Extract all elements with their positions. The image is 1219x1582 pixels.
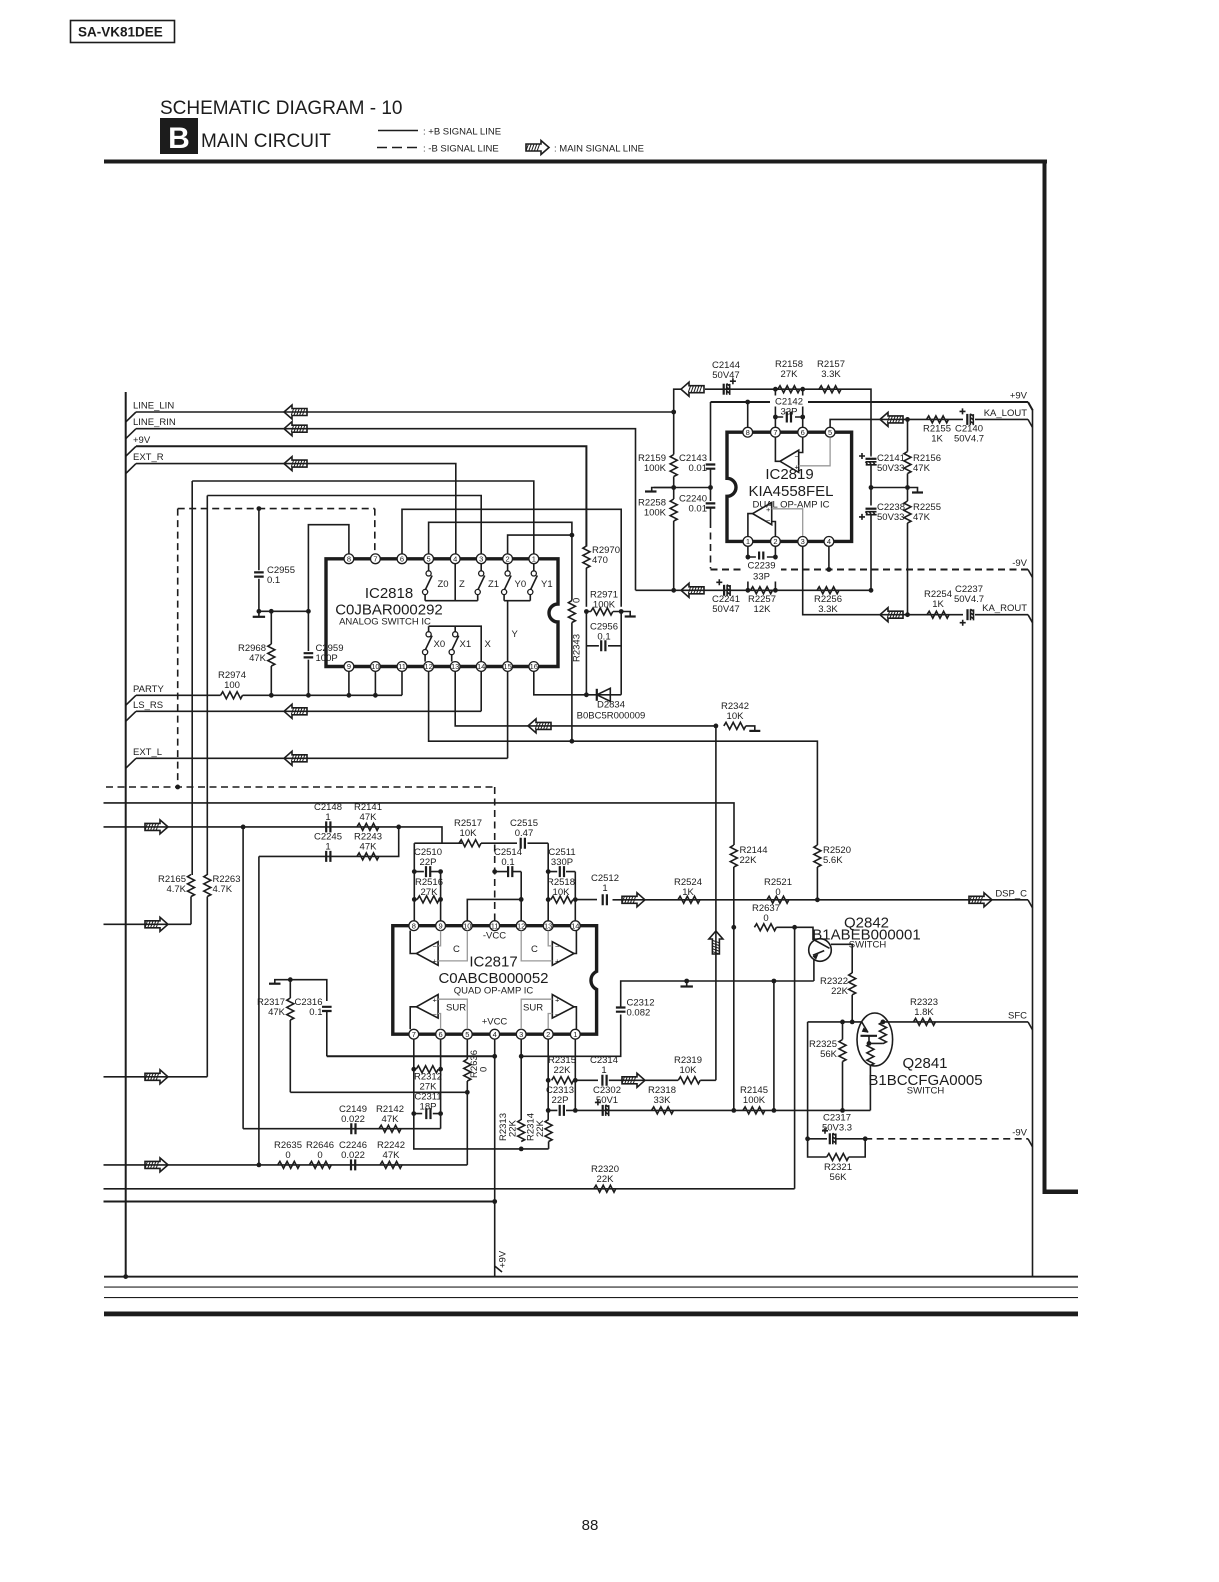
resistor R2243 xyxy=(354,832,382,860)
switch X0 (IC2818) xyxy=(423,626,446,661)
svg-text:47K: 47K xyxy=(913,512,931,523)
svg-text:2: 2 xyxy=(546,1030,550,1039)
svg-text:1: 1 xyxy=(573,1030,577,1039)
signal arrow on LS_RS xyxy=(284,704,307,718)
border right thick line xyxy=(1043,160,1047,1194)
node DSP_C flag xyxy=(995,888,1032,908)
svg-text:D2834: D2834 xyxy=(597,700,625,711)
svg-text:10K: 10K xyxy=(460,828,478,839)
svg-text:50V4.7: 50V4.7 xyxy=(954,594,984,605)
border bottom-right foot xyxy=(1043,1190,1079,1195)
resistor R2157 xyxy=(817,359,845,393)
wire R2970/C2956 branch xyxy=(586,612,621,695)
svg-text:100K: 100K xyxy=(593,600,616,611)
junction C2245 branch xyxy=(257,1163,262,1168)
wire IC2819 pin3 to KA_ROUT xyxy=(803,547,908,615)
wire C2143 to ground node xyxy=(710,469,712,501)
svg-text:22K: 22K xyxy=(740,855,758,866)
svg-text:9: 9 xyxy=(439,921,443,930)
resistor R2518 xyxy=(547,877,575,903)
svg-text:56K: 56K xyxy=(830,1172,848,1183)
wire KA_LOUT line xyxy=(908,418,964,420)
junction pin5/pin2/R2343 xyxy=(570,533,575,538)
svg-text:LS_RS: LS_RS xyxy=(133,700,163,711)
svg-text:100K: 100K xyxy=(743,1095,766,1106)
capacitor C2316 xyxy=(295,997,332,1056)
wire pin9 column xyxy=(440,872,442,921)
resistor R2256 xyxy=(814,587,842,615)
IC2817 pin 10 xyxy=(462,921,472,931)
svg-text:33K: 33K xyxy=(654,1095,672,1106)
signal arrow on LINE_LIN xyxy=(284,405,307,419)
wire R2637 to Q2842 base xyxy=(776,927,813,940)
node +9V rotated flag xyxy=(495,1250,509,1272)
svg-text:8: 8 xyxy=(347,554,351,563)
svg-text:22K: 22K xyxy=(831,986,849,997)
junction R2312 right xyxy=(438,1067,443,1072)
svg-text:1: 1 xyxy=(601,1065,606,1076)
svg-text:2: 2 xyxy=(773,537,777,546)
IC2819 pin 7 xyxy=(771,427,781,437)
capacitor C2511 xyxy=(548,847,575,877)
IC2817 pin 14 xyxy=(570,921,580,931)
wire C2245 line xyxy=(259,827,399,1165)
IC2817 pin 12 xyxy=(516,921,526,931)
junction R2141/R2243 xyxy=(396,825,401,830)
capacitor C2144 xyxy=(712,360,740,395)
junction C2239 right xyxy=(773,555,778,560)
svg-text:LINE_RIN: LINE_RIN xyxy=(133,417,176,428)
capacitor C2515 xyxy=(481,818,548,849)
resistor R2159 xyxy=(638,412,677,477)
svg-text:3: 3 xyxy=(801,537,805,546)
junction R2312 left xyxy=(411,1067,416,1072)
svg-text:4: 4 xyxy=(493,1030,497,1039)
svg-text:Y: Y xyxy=(512,629,519,640)
title MAIN CIRCUIT xyxy=(201,131,331,152)
wire base line to R2318 line xyxy=(807,1022,809,1139)
signal arrow on EXT_R xyxy=(284,457,307,471)
svg-text:SUR: SUR xyxy=(446,1003,466,1014)
svg-text:14: 14 xyxy=(571,921,579,930)
signal arrow on C2314 line xyxy=(622,1073,645,1087)
transistor Q2842 xyxy=(809,915,921,982)
resistor R2320 xyxy=(591,1164,619,1192)
junction KA_ROUT / R2255 xyxy=(905,612,910,617)
bottom bus line 1 xyxy=(104,1276,1078,1278)
junction R2516 left xyxy=(412,897,417,902)
svg-text:-9V: -9V xyxy=(1012,558,1027,569)
svg-text:IC2817: IC2817 xyxy=(469,954,517,971)
wire EXT_L line to pin15 xyxy=(136,672,508,759)
node -9V flag (bottom) xyxy=(1012,1127,1032,1147)
capacitor C2239 xyxy=(742,552,781,583)
capacitor C2143 xyxy=(679,453,715,474)
signal arrow on EXT_L xyxy=(284,751,307,765)
svg-text:33P: 33P xyxy=(753,572,770,583)
wire IC2818 pin13 to R2342 xyxy=(455,672,716,726)
svg-text:6: 6 xyxy=(439,1030,443,1039)
junction R2637 left xyxy=(731,925,736,930)
IC2817 quad op-amp body xyxy=(393,926,597,1034)
node SFC flag xyxy=(1008,1010,1033,1030)
op-amp U2817 C (top-left) xyxy=(410,931,467,966)
svg-text:IC2818: IC2818 xyxy=(365,585,413,602)
IC2817 pin 4 xyxy=(490,1029,500,1039)
signal arrow on LINE_RIN xyxy=(284,422,307,436)
svg-text:IC2819: IC2819 xyxy=(765,466,813,483)
signal arrow on 926 line xyxy=(145,917,168,931)
wire C2312 bottom segment xyxy=(521,1015,621,1057)
resistor R2145 xyxy=(740,1085,768,1114)
IC2818 pin 10 xyxy=(371,662,381,672)
capacitor C2956 xyxy=(586,622,621,652)
svg-text:-9V: -9V xyxy=(1012,1127,1027,1138)
wire IC2819 pin1,2 stubs to C2241 line xyxy=(748,547,776,591)
IC2818 pin 5 xyxy=(424,554,434,564)
junction C2514 right xyxy=(519,897,524,902)
svg-text:−: − xyxy=(433,942,438,951)
ground (C2955 node) xyxy=(258,611,260,617)
wire C2144 line (pin8 net) xyxy=(705,389,871,455)
wire branch to C2149 line xyxy=(242,827,244,1129)
resistor R2142 xyxy=(376,1104,404,1132)
resistor R2255 xyxy=(904,488,941,615)
junction C2511 left xyxy=(546,869,551,874)
svg-text:C: C xyxy=(453,944,460,955)
svg-text:SWITCH: SWITCH xyxy=(849,940,887,951)
IC2819 pin 5 xyxy=(825,427,835,437)
wire IC2819 pin8 stub xyxy=(747,402,749,427)
capacitor C2140 xyxy=(954,408,984,444)
resistor R2165 xyxy=(158,874,195,924)
svg-text:0: 0 xyxy=(285,1150,290,1161)
svg-text:LINE_LIN: LINE_LIN xyxy=(133,401,174,412)
node KA_LOUT flag xyxy=(984,408,1033,428)
junction PARTY/pin9 xyxy=(347,693,352,698)
junction R2518 left xyxy=(546,897,551,902)
junction KA_LOUT / R2156 xyxy=(905,417,910,422)
svg-text:Q2841: Q2841 xyxy=(902,1055,947,1072)
junction R2159/R2258 xyxy=(671,485,676,490)
node LINE_LIN flag xyxy=(126,401,175,423)
IC2818 analog switch IC body xyxy=(326,559,558,667)
svg-text:7: 7 xyxy=(773,428,777,437)
wire C2149/R2142 line xyxy=(243,1128,441,1130)
resistor R2315 xyxy=(548,1055,576,1084)
svg-text:1: 1 xyxy=(325,842,330,853)
junction R2637 right xyxy=(792,925,797,930)
svg-text:SCHEMATIC DIAGRAM - 10: SCHEMATIC DIAGRAM - 10 xyxy=(160,98,402,119)
wire LINE_RIN xyxy=(136,429,636,591)
svg-text:−: − xyxy=(555,942,560,951)
IC2819 pin 8 xyxy=(743,427,753,437)
op-amp U2817 C (top-right) xyxy=(521,931,576,966)
svg-text:27K: 27K xyxy=(421,887,439,898)
junction C2148 line branch xyxy=(241,825,246,830)
resistor R2257 xyxy=(748,587,776,615)
capacitor C2317 xyxy=(808,1113,866,1145)
IC2817 pin 9 xyxy=(436,921,446,931)
junction PARTY/pin10 xyxy=(373,693,378,698)
wire ground link R2159 R2258 xyxy=(654,487,711,489)
IC2818 pin 8 xyxy=(344,554,354,564)
signal arrow on C2144 line xyxy=(681,382,704,396)
wire R2635 line xyxy=(104,1164,468,1166)
resistor R2254 xyxy=(924,589,952,618)
svg-text:5: 5 xyxy=(427,554,431,563)
junction C2510 right xyxy=(438,869,443,874)
junction pin8 stub on +9V xyxy=(745,400,750,405)
resistor R2258 xyxy=(638,477,677,591)
switch Y1 (IC2818) xyxy=(528,564,553,601)
IC2818 pin 3 xyxy=(476,554,486,564)
svg-text:5.6K: 5.6K xyxy=(823,855,843,866)
svg-text:1K: 1K xyxy=(931,434,943,445)
wire IC2818 pin5/pin2 to R2343 xyxy=(429,522,572,554)
svg-text:0.1: 0.1 xyxy=(597,632,610,643)
svg-text:10: 10 xyxy=(463,921,471,930)
wire LS_RS line to pin14 xyxy=(136,672,481,712)
IC2819 pin 3 xyxy=(798,537,808,547)
node +9V flag (left) xyxy=(126,435,151,457)
junction C2143/C2240 midnode xyxy=(708,485,713,490)
wire SFC line xyxy=(883,1021,1028,1023)
junction PARTY/C2959 xyxy=(306,693,311,698)
wire R2320 line xyxy=(104,1188,795,1190)
svg-text:10K: 10K xyxy=(727,711,745,722)
resistor R2968 xyxy=(238,611,275,695)
signal arrow on KA_ROUT xyxy=(880,608,903,622)
svg-text:X1: X1 xyxy=(460,639,472,650)
wire +9V riser to bottom bus xyxy=(494,1202,496,1277)
svg-text:C0ABCB000052: C0ABCB000052 xyxy=(438,970,548,987)
junction R2315 left xyxy=(546,1078,551,1083)
svg-text:0.1: 0.1 xyxy=(501,857,514,868)
junction LINE_LIN / R2159 xyxy=(671,410,676,415)
model number box SA-VK81DEE xyxy=(71,21,175,43)
svg-text:47K: 47K xyxy=(382,1114,400,1125)
signal arrow on KA_LOUT xyxy=(880,412,903,426)
resistor R2971 xyxy=(586,590,621,616)
resistor R2521 xyxy=(764,877,792,903)
wire IC2819 pin5 to KA_LOUT node xyxy=(830,419,907,427)
svg-text:14: 14 xyxy=(477,662,485,671)
node -9V flag (right top) xyxy=(1012,558,1032,578)
svg-text:X0: X0 xyxy=(434,639,446,650)
signal arrow on DSP_C line xyxy=(622,893,645,907)
svg-text:100K: 100K xyxy=(644,463,667,474)
svg-text:0: 0 xyxy=(572,598,583,603)
svg-text:50V47: 50V47 xyxy=(712,370,739,381)
junction R2158 left xyxy=(773,387,778,392)
svg-text:0.1: 0.1 xyxy=(309,1007,322,1018)
junction pin12 line / R2343 xyxy=(570,739,575,744)
wire D2834 line xyxy=(534,672,621,695)
svg-text:50V33: 50V33 xyxy=(877,463,904,474)
svg-text:4.7K: 4.7K xyxy=(213,884,233,895)
IC2818 pin 6 xyxy=(397,554,407,564)
Q2841 labels xyxy=(868,1055,982,1097)
switch Z0 (IC2818) xyxy=(423,564,449,601)
svg-text:B: B xyxy=(168,122,190,155)
svg-text:56K: 56K xyxy=(820,1049,838,1060)
wire C2143 +9V drop xyxy=(710,402,712,461)
junction R2325 bottom xyxy=(840,1108,845,1113)
wire -9V dashed top xyxy=(711,569,1029,571)
wire X common xyxy=(429,626,482,661)
svg-text:5: 5 xyxy=(828,428,832,437)
wire EXT_R xyxy=(136,464,456,554)
svg-text:16: 16 xyxy=(530,662,538,671)
svg-text:4: 4 xyxy=(453,554,457,563)
junction IC2819 pin4 on -9V xyxy=(827,567,832,572)
ground (R2971 node) xyxy=(621,612,630,617)
svg-text:50V47: 50V47 xyxy=(712,604,739,615)
svg-text:50V3.3: 50V3.3 xyxy=(822,1123,852,1134)
wire left line 1077 (to R2263) xyxy=(104,1076,208,1078)
junction C2317 right xyxy=(863,1136,868,1141)
switch Z1 (IC2818) xyxy=(475,564,499,601)
junction R2257 left xyxy=(746,588,751,593)
resistor R2970 xyxy=(583,545,620,568)
svg-text:33P: 33P xyxy=(781,407,798,418)
capacitor C2149 xyxy=(339,1104,367,1134)
capacitor C2510 xyxy=(414,847,442,877)
capacitor C2245 xyxy=(314,832,342,862)
wire C2955 node xyxy=(259,610,309,612)
svg-text:0.1: 0.1 xyxy=(267,575,280,586)
svg-text:10K: 10K xyxy=(553,887,571,898)
IC2819 pin 2 xyxy=(771,537,781,547)
svg-text:47K: 47K xyxy=(360,842,378,853)
svg-text:13: 13 xyxy=(451,662,459,671)
wire R2517 line xyxy=(414,842,462,844)
svg-text:0.082: 0.082 xyxy=(627,1008,651,1019)
junction R2968 top xyxy=(269,609,274,614)
svg-text:C2239: C2239 xyxy=(748,561,776,572)
resistor R2263 xyxy=(204,874,241,1077)
capacitor C2302 xyxy=(593,1085,621,1116)
svg-text:47K: 47K xyxy=(383,1150,401,1161)
ground (C2141/R2156 node) xyxy=(908,488,918,493)
capacitor C2141 xyxy=(859,453,905,488)
svg-text:13: 13 xyxy=(544,921,552,930)
svg-text:15: 15 xyxy=(503,662,511,671)
switch X1 (IC2818) xyxy=(449,626,471,661)
wire IC2818 pin1 net (to left column) xyxy=(192,481,534,875)
wire R2342 column xyxy=(715,726,717,1080)
svg-text:3: 3 xyxy=(519,1030,523,1039)
signal arrow on C2148 line xyxy=(145,820,168,834)
svg-text:X: X xyxy=(485,639,492,650)
wire pin4 to +9V bus xyxy=(494,1039,496,1201)
capacitor C2512 xyxy=(591,873,619,905)
wire LINE_LIN riser to C2144 line xyxy=(674,389,681,412)
svg-text:-VCC: -VCC xyxy=(483,931,506,942)
resistor R2637 xyxy=(752,903,780,931)
svg-text:11: 11 xyxy=(398,662,406,671)
svg-text:1: 1 xyxy=(532,554,536,563)
signal arrow on 1077 line xyxy=(145,1070,168,1084)
resistor R2318 xyxy=(648,1085,676,1114)
junction C2959/pin8 xyxy=(306,609,311,614)
legend -B signal line xyxy=(377,144,499,155)
svg-text:+9V: +9V xyxy=(498,1250,509,1268)
capacitor C2312 xyxy=(616,981,814,1019)
svg-text:R2636: R2636 xyxy=(469,1050,480,1078)
wire left line 926 (to R2165) xyxy=(104,923,192,925)
svg-text:MAIN CIRCUIT: MAIN CIRCUIT xyxy=(201,131,331,152)
svg-text:: -B SIGNAL LINE: : -B SIGNAL LINE xyxy=(423,144,499,155)
IC2818 pin 11 xyxy=(397,662,407,672)
wire pin3 column xyxy=(520,1039,522,1120)
border top thick line xyxy=(104,160,1047,164)
junction +VCC/pin4 xyxy=(492,1054,497,1059)
junction R2313 bottom xyxy=(519,1147,524,1152)
wire pin6 column xyxy=(440,1039,442,1129)
capacitor C2241 xyxy=(712,579,740,615)
node EXT_L flag xyxy=(126,747,162,769)
svg-text:: MAIN SIGNAL LINE: : MAIN SIGNAL LINE xyxy=(554,144,644,155)
ground (C2312 line) xyxy=(684,979,689,984)
junction R2342 left xyxy=(714,724,719,729)
wire -9V dashed drop to IC2818 area xyxy=(710,521,712,569)
resistor R2636 (0 ohm, vertical) xyxy=(464,1039,490,1092)
wire Q2841 base line xyxy=(808,1021,862,1023)
IC2817 pin 3 xyxy=(516,1029,526,1039)
wire DSP_C line xyxy=(575,899,1028,901)
capacitor C2313 xyxy=(546,1085,575,1116)
op-amp U2819A (top) xyxy=(775,438,830,473)
diode D2834 xyxy=(577,688,646,721)
svg-text:2: 2 xyxy=(506,554,510,563)
node EXT_R flag xyxy=(126,452,164,474)
junction C2313 left xyxy=(546,1108,551,1113)
svg-text:3.3K: 3.3K xyxy=(821,369,841,380)
svg-text:18P: 18P xyxy=(420,1102,437,1113)
resistor R2242 xyxy=(377,1140,405,1168)
junction C2311 left xyxy=(411,1111,416,1116)
resistor R2322 xyxy=(820,973,856,1022)
resistor R2317 xyxy=(257,980,294,1093)
svg-text:11: 11 xyxy=(491,921,499,930)
svg-text:KA_ROUT: KA_ROUT xyxy=(982,603,1027,614)
node +9V flag (right) xyxy=(1010,391,1033,411)
wire -9V dashed bottom xyxy=(865,1138,1028,1140)
svg-text:+: + xyxy=(795,463,800,472)
svg-text:ANALOG SWITCH IC: ANALOG SWITCH IC xyxy=(339,617,431,628)
wire pin10/pin12 link xyxy=(467,872,521,921)
signal arrow on R2635 line xyxy=(145,1158,168,1172)
svg-text:22K: 22K xyxy=(554,1065,572,1076)
wire R2320 riser xyxy=(794,927,796,1189)
svg-text:0.022: 0.022 xyxy=(341,1150,365,1161)
capacitor C2314 xyxy=(575,1055,618,1086)
junction C2311 right xyxy=(438,1111,443,1116)
svg-text:12K: 12K xyxy=(754,604,772,615)
transistor Q2841 (digital) xyxy=(857,1013,893,1110)
svg-text:+: + xyxy=(766,505,771,514)
wire R2144 column to R2637 xyxy=(733,927,735,1110)
IC2819 pin 4 xyxy=(824,537,834,547)
capacitor C2246 xyxy=(339,1140,367,1170)
svg-text:−: − xyxy=(795,452,800,461)
svg-text:+: + xyxy=(555,957,560,966)
bottom bus line 3 xyxy=(104,1297,1078,1298)
resistor R2635 xyxy=(274,1140,302,1168)
wire IC2818 pin12 net xyxy=(429,672,818,846)
